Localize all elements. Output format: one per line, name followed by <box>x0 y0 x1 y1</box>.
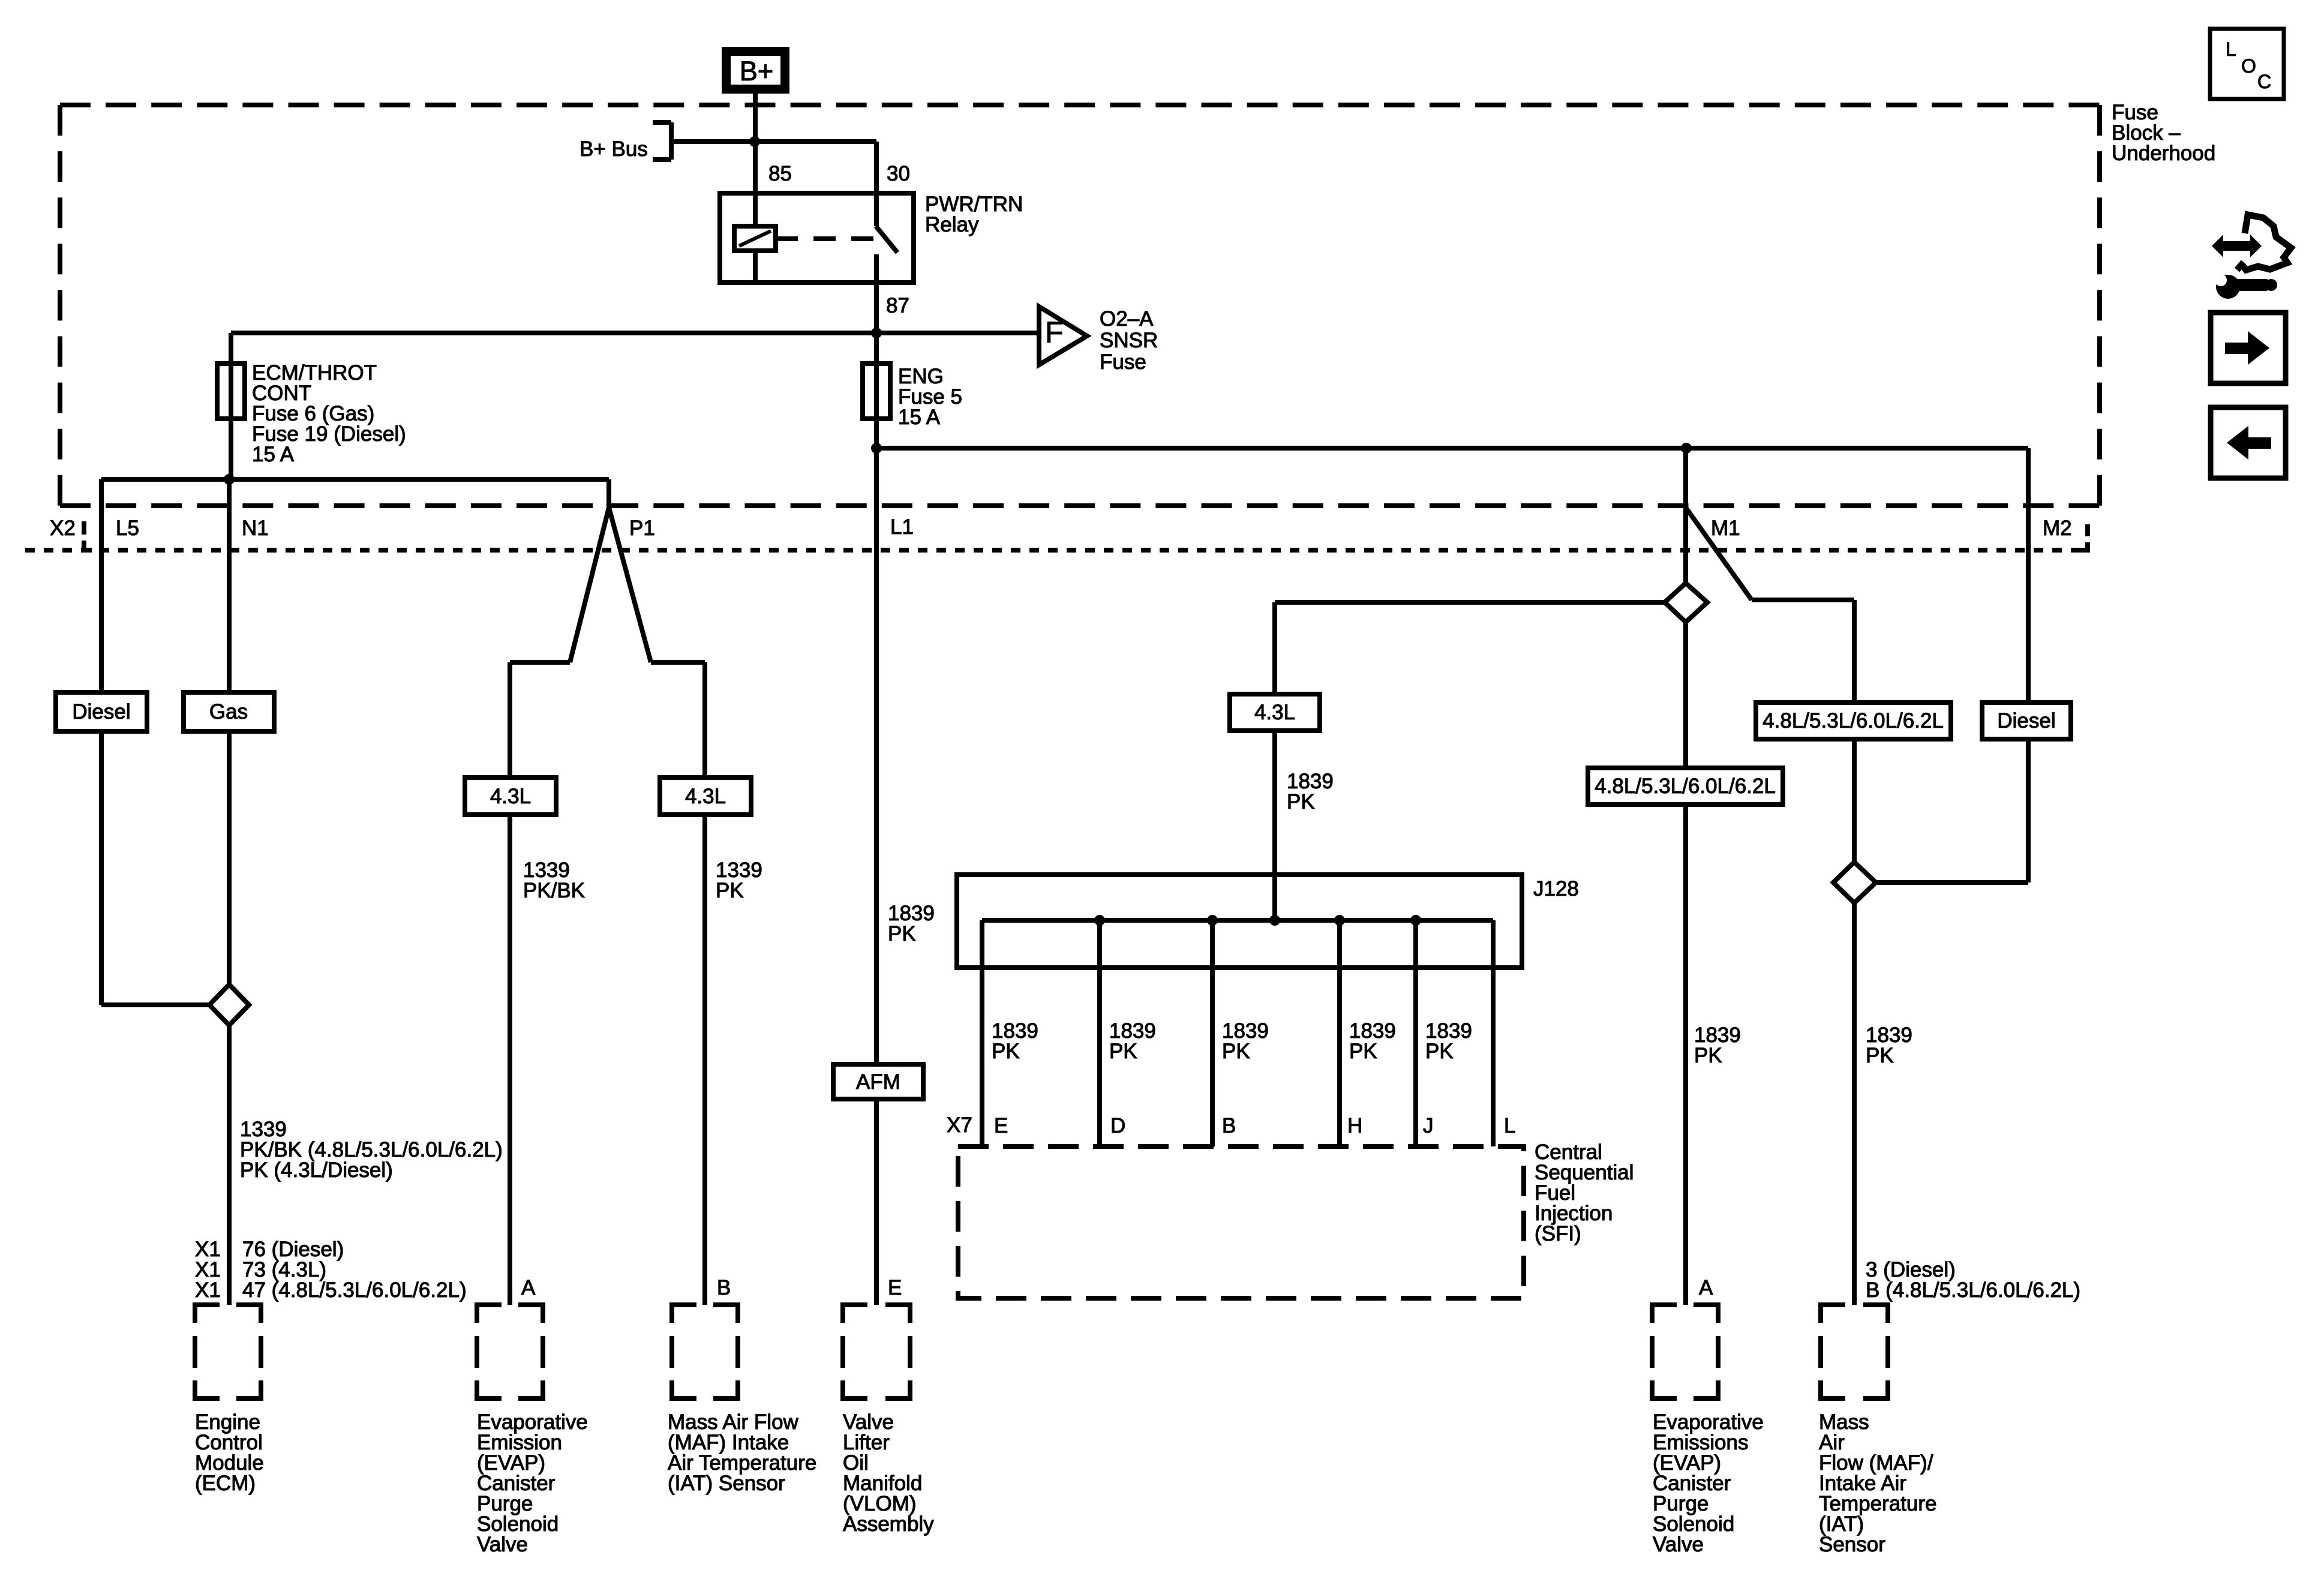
wire P1 right leg diagonal <box>609 508 651 662</box>
icon LOC box <box>2210 29 2284 99</box>
fuse block - underhood dashed border top <box>60 103 2100 107</box>
svg-text:15 A: 15 A <box>898 406 941 429</box>
node J128 bus dot B <box>1207 915 1218 926</box>
svg-text:4.8L/5.3L/6.0L/6.2L: 4.8L/5.3L/6.0L/6.2L <box>1762 709 1944 733</box>
svg-text:PK: PK <box>716 879 744 902</box>
svg-text:H: H <box>1347 1114 1362 1137</box>
icon back arrow <box>2227 426 2271 460</box>
fuse ENG Fuse 5 <box>863 364 890 419</box>
svg-text:D: D <box>1110 1114 1125 1137</box>
wire MAF2 branch upper <box>1852 600 1857 862</box>
svg-text:PK: PK <box>1866 1044 1894 1067</box>
component VLOM Assembly dashed box <box>843 1305 910 1398</box>
wire B+ bus horizontal <box>671 139 876 144</box>
wire relay pin 87 <box>874 254 879 448</box>
svg-text:Fuse: Fuse <box>1100 350 1146 374</box>
icon forward arrow box <box>2211 313 2286 383</box>
wire J128 drop D <box>1097 920 1102 1146</box>
svg-text:PK: PK <box>1349 1040 1377 1063</box>
B+ bus bracket vertical <box>669 122 674 160</box>
wire relay coil return <box>753 251 758 283</box>
svg-text:O: O <box>2241 55 2256 77</box>
svg-text:Relay: Relay <box>925 213 979 236</box>
connector X2 bracket dash 2 <box>82 541 86 553</box>
component MAF/IAT Sensor dashed box <box>672 1305 738 1398</box>
svg-text:Valve: Valve <box>1653 1533 1704 1556</box>
wire B+ drop <box>753 94 758 142</box>
component AFM box <box>833 1064 923 1099</box>
wire P1 stub <box>606 479 611 508</box>
connector X2 bracket stub <box>84 548 92 553</box>
svg-text:PK: PK <box>1287 790 1315 813</box>
svg-text:B+ Bus: B+ Bus <box>580 137 648 161</box>
wire P1 left leg diagonal <box>570 508 609 662</box>
svg-text:85: 85 <box>768 162 792 185</box>
component Engine Control Module (ECM) dashed box <box>195 1305 261 1398</box>
wire relay pin 85 feed <box>753 142 758 226</box>
wire J128 drop L <box>1491 920 1496 1146</box>
connector band dotted line <box>25 548 2083 553</box>
node ENG fuse junction <box>871 328 882 338</box>
wire diagonal horizontal <box>1752 598 1854 602</box>
wire J128 drop J <box>1413 920 1418 1146</box>
svg-text:A: A <box>1699 1276 1713 1299</box>
label box Gas (N1) <box>184 692 274 731</box>
wire L1 drop (1839 PK) <box>874 448 879 1305</box>
svg-text:L5: L5 <box>116 517 139 540</box>
svg-text:L: L <box>2226 38 2236 60</box>
svg-text:(IAT) Sensor: (IAT) Sensor <box>668 1472 785 1495</box>
wire 4.3L drop to J128 <box>1272 602 1277 920</box>
svg-text:A: A <box>521 1276 536 1299</box>
wire J128 internal bus <box>982 918 1493 923</box>
wire M2 drop (Diesel) <box>2026 448 2031 882</box>
wire relay pin 30 feed <box>874 142 879 226</box>
svg-text:PK: PK <box>888 922 916 945</box>
wire M1 drop <box>1683 448 1688 583</box>
component MAF/IAT Sensor 2 dashed box <box>1821 1305 1888 1398</box>
splice diamond S3 <box>209 984 249 1025</box>
label box Diesel (M2) <box>1982 703 2071 739</box>
svg-text:J128: J128 <box>1533 877 1579 900</box>
wire L5 drop <box>99 479 104 1005</box>
wire J128 drop H <box>1337 920 1342 1146</box>
svg-text:B+: B+ <box>740 56 773 86</box>
wire engine bus horizontal <box>101 477 609 482</box>
svg-text:B: B <box>1222 1114 1236 1137</box>
svg-text:E: E <box>994 1114 1008 1137</box>
svg-text:PK/BK: PK/BK <box>523 879 585 902</box>
fuse symbol O2-A SNSR (triangle F) <box>1039 307 1087 365</box>
component EVAP Canister Purge Solenoid Valve 2 dashed box <box>1652 1305 1718 1398</box>
label box Diesel (L5) <box>56 692 147 731</box>
fuse block - underhood dashed border bottom <box>60 503 2100 508</box>
splice diamond S1 <box>1665 583 1707 622</box>
connector X2 bracket dash 1 <box>82 521 86 535</box>
svg-text:L1: L1 <box>890 515 914 539</box>
wire ECM/THROT fuse drop <box>229 333 233 479</box>
wire splice S1 horizontal <box>1275 600 1665 605</box>
wire splice S2 horizontal <box>1876 880 2028 885</box>
wire MAF/IAT branch (1339 PK) <box>702 662 707 1305</box>
wire J128 drop E <box>980 920 984 1146</box>
svg-text:AFM: AFM <box>856 1070 900 1094</box>
icon underhood wrench <box>2216 275 2277 299</box>
wire J128 drop B <box>1210 920 1215 1146</box>
svg-text:4.3L: 4.3L <box>1254 701 1295 724</box>
svg-text:Diesel: Diesel <box>1997 709 2055 733</box>
svg-text:(SFI): (SFI) <box>1535 1222 1581 1245</box>
wire M1 diagonal <box>1686 508 1752 600</box>
node J128 bus dot J <box>1410 915 1421 926</box>
wire main feed horizontal <box>231 331 1039 335</box>
icon back arrow box <box>2211 407 2286 478</box>
svg-text:PK: PK <box>1425 1040 1454 1063</box>
connector M2 end bracket dash 2 <box>2085 542 2090 553</box>
svg-text:B: B <box>717 1276 731 1299</box>
wire P1 right horizontal <box>651 660 705 665</box>
relay coil-to-switch dashed link <box>776 236 879 241</box>
svg-text:4.3L: 4.3L <box>490 785 531 808</box>
svg-text:M1: M1 <box>1711 517 1740 540</box>
wire ECM branch below splice <box>227 1025 232 1305</box>
svg-text:PK: PK <box>1694 1044 1722 1067</box>
component Central SFI dashed box <box>958 1146 1524 1298</box>
relay switch blade <box>876 226 897 253</box>
label box 4.3L (MAF) <box>660 778 751 815</box>
icon underhood head outline <box>2241 215 2291 270</box>
svg-text:E: E <box>888 1276 902 1299</box>
svg-text:Sensor: Sensor <box>1819 1533 1885 1556</box>
svg-text:SNSR: SNSR <box>1100 329 1158 352</box>
svg-text:PK: PK <box>992 1040 1020 1063</box>
wire M1 feed horizontal <box>876 446 2028 451</box>
svg-text:4.3L: 4.3L <box>685 785 726 808</box>
svg-text:L: L <box>1504 1114 1515 1137</box>
svg-text:O2–A: O2–A <box>1100 307 1154 331</box>
svg-text:Assembly: Assembly <box>843 1512 934 1536</box>
svg-text:87: 87 <box>886 294 909 317</box>
icon underhood double arrow <box>2212 235 2262 257</box>
node B+ bus junction <box>749 136 760 147</box>
svg-text:4.8L/5.3L/6.0L/6.2L: 4.8L/5.3L/6.0L/6.2L <box>1595 775 1776 798</box>
svg-text:N1: N1 <box>242 517 269 540</box>
connector M2 end bracket dash 1 <box>2085 524 2090 536</box>
label box 4.8L/5.3L/6.0L/6.2L (left) <box>1588 768 1783 804</box>
svg-text:Valve: Valve <box>477 1533 528 1556</box>
svg-text:30: 30 <box>887 162 910 185</box>
terminal B+ box <box>726 52 785 89</box>
node M1 branch junction <box>1681 443 1692 454</box>
connector M2 end bracket stub <box>2080 548 2088 553</box>
relay PWR/TRN box <box>720 193 914 283</box>
component EVAP Canister Purge Solenoid Valve dashed box <box>477 1305 543 1398</box>
svg-text:PK: PK <box>1222 1040 1250 1063</box>
fuse ECM/THROT CONT Fuse 6/19 <box>217 364 245 419</box>
node J128 bus dot D <box>1094 915 1105 926</box>
svg-text:J: J <box>1423 1114 1434 1137</box>
fuse block - underhood dashed border left <box>58 105 62 506</box>
wire L5 horizontal to splice <box>101 1002 209 1007</box>
node J128 bus dot feed <box>1269 915 1280 926</box>
svg-text:PK: PK <box>1109 1040 1137 1063</box>
B+ bus bracket top stub <box>653 120 671 125</box>
svg-text:(ECM): (ECM) <box>195 1472 256 1495</box>
label box 4.3L (EVAP) <box>465 778 556 815</box>
wire MAF2 branch lower (1839 PK) <box>1852 903 1857 1305</box>
svg-text:Underhood: Underhood <box>2112 142 2215 165</box>
svg-text:C: C <box>2257 71 2271 92</box>
label box 4.3L (J128 feed) <box>1230 694 1320 731</box>
wire N1 drop <box>227 479 232 984</box>
svg-text:P1: P1 <box>629 517 655 540</box>
svg-text:M2: M2 <box>2043 517 2072 540</box>
icon underhood jaw stub <box>2237 262 2244 270</box>
wire P1 left horizontal <box>510 660 570 665</box>
node L1 branch junction <box>871 443 882 454</box>
wire EVAP2 branch (1839 PK) <box>1683 622 1688 1305</box>
label box 4.8L/5.3L/6.0L/6.2L (right) <box>1756 703 1951 739</box>
svg-text:Diesel: Diesel <box>72 700 130 724</box>
B+ bus bracket bottom stub <box>653 157 671 162</box>
junction block J128 box <box>957 875 1522 968</box>
wire EVAP solenoid branch (1339 PK/BK) <box>508 662 512 1305</box>
icon forward arrow <box>2225 331 2269 365</box>
svg-text:X2: X2 <box>50 517 76 540</box>
svg-text:PK (4.3L/Diesel): PK (4.3L/Diesel) <box>240 1158 393 1182</box>
splice diamond S2 <box>1833 862 1876 903</box>
fuse block - underhood dashed border right <box>2097 105 2102 506</box>
svg-text:X7: X7 <box>947 1113 972 1137</box>
svg-text:B (4.8L/5.3L/6.0L/6.2L): B (4.8L/5.3L/6.0L/6.2L) <box>1866 1278 2080 1302</box>
svg-text:15 A: 15 A <box>252 443 295 466</box>
relay coil <box>734 226 776 251</box>
svg-text:Gas: Gas <box>209 700 248 724</box>
svg-text:47 (4.8L/5.3L/6.0L/6.2L): 47 (4.8L/5.3L/6.0L/6.2L) <box>242 1278 467 1302</box>
svg-text:F: F <box>1045 316 1064 349</box>
svg-text:X1: X1 <box>195 1278 221 1302</box>
node J128 bus dot H <box>1334 915 1345 926</box>
relay coil diagonal <box>739 231 771 246</box>
node N1 junction <box>224 474 235 485</box>
